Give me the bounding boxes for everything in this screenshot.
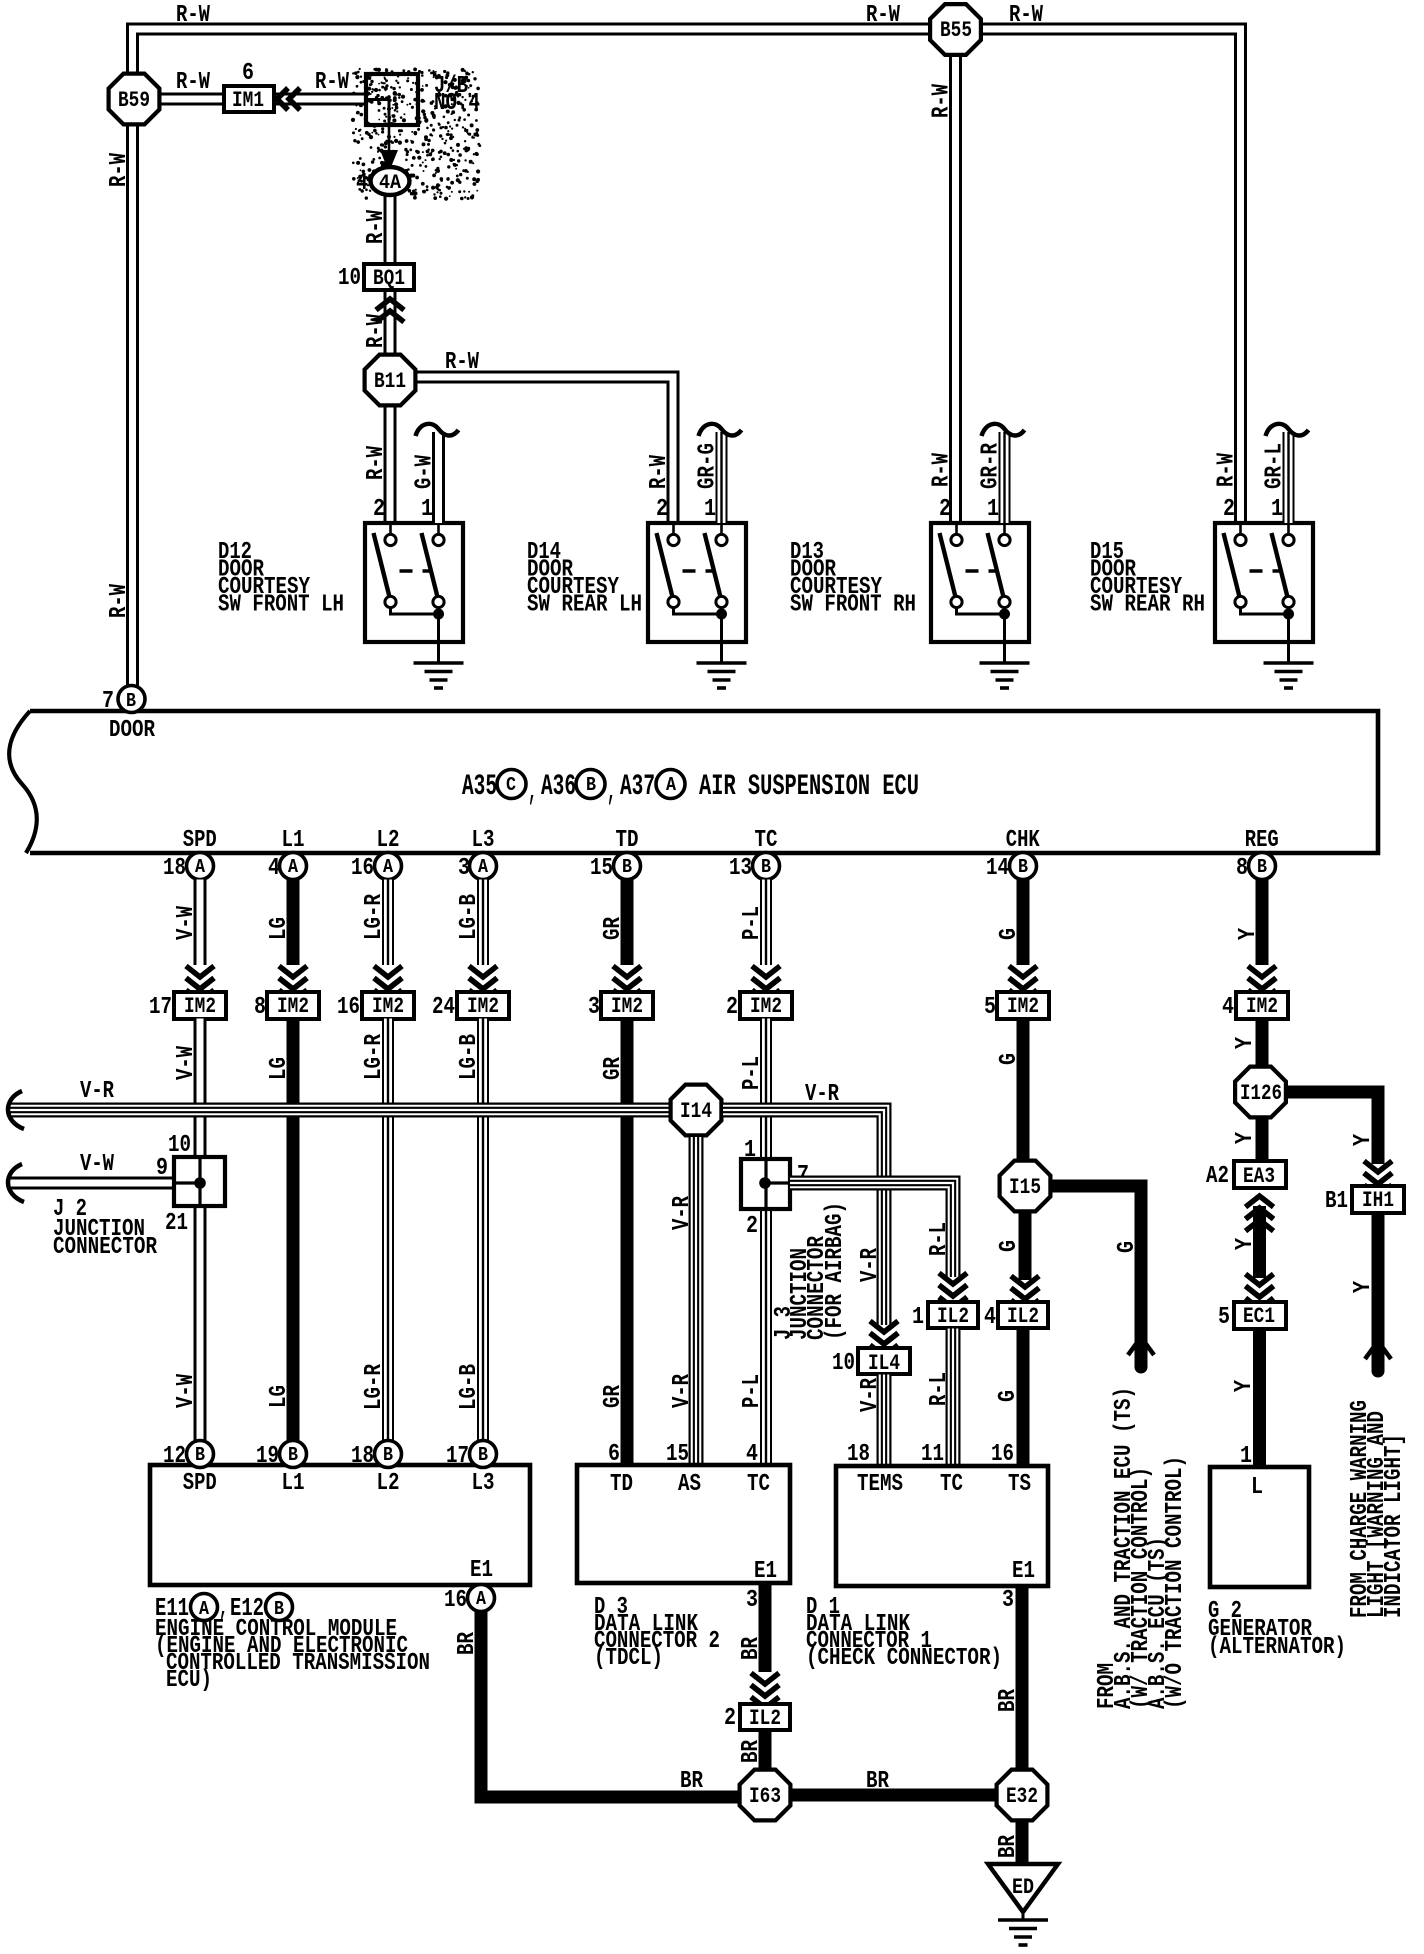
wire BR from ECM pin 16 down and right to I63 [481,1612,738,1798]
ground below D12 [414,661,464,665]
svg-text:R-W: R-W [1214,453,1241,487]
svg-text:B: B [288,1444,298,1466]
svg-text:2: 2 [726,994,738,1021]
svg-text:SW REAR RH: SW REAR RH [1090,592,1205,619]
svg-text:E1: E1 [470,1557,493,1584]
svg-text:21: 21 [165,1210,188,1237]
svg-text:4: 4 [746,1441,758,1468]
svg-text:(TDCL): (TDCL) [594,1645,663,1672]
air suspension ECU box outline with break squiggle [30,711,1378,853]
wire Y from I126 down to EA3 [1256,1119,1269,1161]
svg-text:E32: E32 [1006,1784,1038,1809]
wire R-W BQ1 to B11 [384,289,397,354]
wire Y from EC1 down to G2 pin 1 [1253,1329,1266,1468]
wire R-W from J/B 4A oval down to BQ1 [384,195,397,264]
svg-text:18: 18 [847,1441,870,1468]
svg-text:LG-B: LG-B [456,1034,483,1080]
svg-text:9: 9 [156,1155,168,1182]
junction connector J3 box (for airbag) [741,1159,790,1209]
svg-text:BQ1: BQ1 [373,266,405,291]
svg-text:TEMS: TEMS [857,1471,903,1498]
door courtesy switch D12 [365,523,463,642]
connector IL2 pin 1 [928,1302,978,1328]
wire V-W from IM2 17 down through J2 to ECM pin 12 [194,1019,207,1158]
svg-text:GR: GR [600,917,627,940]
data link connector 2 box D3 [577,1465,790,1583]
svg-text:B55: B55 [940,18,972,43]
svg-text:Y: Y [1350,1134,1377,1146]
arrows up toward EA3 and wire Y down to EC1 [1246,1196,1274,1207]
svg-text:R-W: R-W [363,446,390,480]
svg-text:GR-L: GR-L [1262,443,1289,489]
svg-text:17: 17 [446,1443,469,1470]
svg-text:Y: Y [1232,1037,1259,1049]
svg-text:V-W: V-W [173,1046,200,1080]
svg-text:R-W: R-W [176,2,210,29]
svg-text:Y: Y [1231,1380,1258,1392]
svg-text:1: 1 [421,496,433,523]
svg-text:L3: L3 [472,827,495,854]
svg-text:3: 3 [1002,1587,1014,1614]
svg-text:BR: BR [454,1632,481,1655]
svg-text:R-W: R-W [176,69,210,96]
wire G from ECU CHK down to IM2 [1017,880,1030,966]
connector I126 [1235,1067,1286,1118]
wire GR-R into D13 pin 1 with continuation hook [999,432,1011,523]
svg-text:I63: I63 [749,1784,781,1809]
connector IL4 pin 10 [858,1348,910,1374]
svg-text:G: G [996,1053,1023,1065]
svg-text:V-R: V-R [805,1081,839,1108]
svg-text:10: 10 [832,1350,855,1377]
svg-text:3: 3 [746,1587,758,1614]
svg-text:5: 5 [984,994,996,1021]
wire Y from IH1 down to arrow from charge warning light [1372,1213,1385,1341]
wire V-W from ECU SPD down to IM2 [194,880,207,966]
wire GR-G into D14 pin 1 with continuation hook [716,432,728,523]
wire Y from ECU REG down to IM2 [1256,880,1269,966]
svg-text:B11: B11 [374,369,406,394]
arrow chevrons left toward IM1 [277,88,288,110]
svg-text:IM2: IM2 [467,994,499,1019]
svg-text:B: B [761,856,771,878]
svg-text:V-R: V-R [857,1248,884,1282]
wire G from IM2 5 down to I15 [1017,1019,1030,1162]
wire Y from I126 right then down to IH1 [1287,1092,1378,1164]
svg-text:R-W: R-W [315,69,349,96]
wire LG from ECU L1 down to IM2 [287,880,300,966]
svg-text:,: , [528,775,537,809]
svg-text:G: G [996,928,1023,940]
svg-text:EA3: EA3 [1243,1164,1275,1189]
wire BR from I63 to E32 [792,1789,995,1802]
svg-text:V-R: V-R [857,1378,884,1412]
ground below D14 [697,661,747,665]
wire BR from IL2 down to I63 [759,1730,772,1769]
wire LG-B from IM2 24 down to ECM pin 17 [477,1019,489,1442]
door courtesy switch D14 [648,523,746,642]
svg-text:L: L [1251,1474,1263,1501]
wire Y from IM2 4 down to I126 [1256,1019,1269,1068]
svg-text:A2: A2 [1206,1163,1229,1190]
svg-text:Y: Y [1350,1281,1377,1293]
svg-text:IM2: IM2 [1246,994,1278,1019]
svg-text:I126: I126 [1240,1081,1282,1106]
svg-text:V-R: V-R [80,1078,114,1105]
svg-text:11: 11 [921,1441,944,1468]
wire R-W B55 down to D13 pin 2 [949,55,962,523]
svg-text:14: 14 [986,855,1009,882]
data link connector 1 box D1 [836,1466,1048,1586]
svg-text:4: 4 [268,855,280,882]
svg-text:A: A [288,856,299,878]
svg-text:I14: I14 [680,1099,712,1124]
svg-text:BR: BR [995,1835,1022,1858]
svg-text:5: 5 [1218,1304,1230,1331]
svg-text:LG-R: LG-R [361,894,388,940]
svg-text:8: 8 [254,994,266,1021]
connector BQ1 with pin 10 [364,264,414,290]
wire LG-B from ECU L3 down to IM2 [477,880,489,966]
wire G from I15 down to IL2 pin 4 [1019,1213,1032,1280]
svg-text:B59: B59 [118,88,150,113]
svg-text:C: C [506,774,516,796]
svg-text:B: B [1018,856,1028,878]
connector IM2 pin 16 [362,992,414,1019]
svg-text:EC1: EC1 [1243,1304,1275,1329]
svg-text:G: G [995,1390,1022,1402]
svg-text:R-W: R-W [106,584,133,618]
svg-text:I15: I15 [1009,1175,1041,1200]
svg-text:V-R: V-R [669,1196,696,1230]
svg-text:L1: L1 [282,827,305,854]
svg-text:2: 2 [724,1705,736,1732]
svg-text:B: B [195,1444,205,1466]
svg-text:6: 6 [242,60,254,87]
svg-text:BR: BR [995,1689,1022,1712]
svg-text:12: 12 [163,1443,186,1470]
svg-text:TC: TC [940,1471,963,1498]
svg-text:IL4: IL4 [868,1351,900,1376]
wire V-W from left margin to J2 pin 9 [10,1177,174,1190]
svg-text:TC: TC [755,827,778,854]
generator box G2 [1210,1467,1309,1587]
svg-text:TD: TD [610,1471,633,1498]
svg-text:17: 17 [149,994,172,1021]
svg-text:3: 3 [588,994,600,1021]
svg-text:CONNECTOR: CONNECTOR [53,1234,157,1261]
wire G from I15 right then down to arrow from ABS ECU [1052,1186,1141,1340]
wire LG-R from ECU L2 down to IM2 [382,880,394,966]
wire V-R from IL4 down to D1 pin 18 TEMS [877,1375,892,1467]
svg-text:LG: LG [266,1057,293,1080]
svg-text:GR: GR [600,1057,627,1080]
wire R-L from IL2 down to D1 pin 11 TC [946,1329,961,1467]
svg-text:R-L: R-L [926,1372,953,1406]
svg-text:IM2: IM2 [611,994,643,1019]
svg-text:Y: Y [1232,1238,1259,1250]
wire R-W B59 to IM1 to J/B No.4 [159,93,367,106]
svg-text:19: 19 [256,1443,279,1470]
svg-text:(ALTERNATOR): (ALTERNATOR) [1208,1634,1346,1661]
ground below D13 [980,661,1030,665]
svg-text:1: 1 [987,496,999,523]
wire R-L from J3 pin 7 right then down to IL2 pin 1 [790,1183,953,1277]
svg-text:10: 10 [338,265,361,292]
svg-text:R-W: R-W [646,455,673,489]
stipple shading around J/B No.4 junction block [351,68,481,201]
engine control module box E11/E12 [150,1465,530,1585]
connector B59 [109,74,160,125]
svg-text:ECU): ECU) [166,1667,212,1694]
svg-text:GR: GR [600,1385,627,1408]
connector B55 [930,4,981,55]
svg-text:2: 2 [1223,496,1235,523]
connector IM2 pin 8 [267,992,319,1019]
svg-text:1: 1 [1271,496,1283,523]
svg-text:B: B [622,856,632,878]
svg-text:REG: REG [1245,827,1279,854]
wire P-L from ECU TC down to IM2 [760,880,772,966]
svg-text:B: B [126,690,136,712]
svg-text:A37: A37 [620,770,655,804]
svg-text:A36: A36 [541,770,576,804]
svg-text:2: 2 [746,1213,758,1240]
svg-text:R-W: R-W [106,153,133,187]
connector IM2 pin 17 [174,992,226,1019]
ECM pin 19 L1 [280,1441,307,1468]
svg-text:4: 4 [984,1304,996,1331]
svg-text:R-W: R-W [929,453,956,487]
svg-text:15: 15 [666,1441,689,1468]
svg-text:A: A [478,856,489,878]
svg-text:BR: BR [738,1740,765,1763]
svg-text:Y: Y [1235,928,1262,940]
connector IM2 pin 24 [457,992,509,1019]
svg-text:IH1: IH1 [1362,1188,1394,1213]
svg-text:P-L: P-L [739,1056,766,1090]
connector EA3 pin A2 [1234,1161,1286,1188]
svg-text:LG: LG [266,1385,293,1408]
svg-text:6: 6 [608,1441,620,1468]
svg-text:BR: BR [680,1768,703,1795]
svg-text:1: 1 [704,496,716,523]
svg-text:INDICATOR LIGHT]: INDICATOR LIGHT] [1381,1434,1408,1618]
svg-text:V-W: V-W [80,1151,114,1178]
svg-text:E1: E1 [754,1558,777,1585]
svg-text:4A: 4A [379,172,401,195]
svg-text:G: G [1114,1241,1141,1253]
svg-text:4: 4 [356,170,368,197]
svg-text:AIR SUSPENSION ECU: AIR SUSPENSION ECU [699,770,919,804]
svg-text:P-L: P-L [739,906,766,940]
door courtesy switch D15 [1215,523,1313,642]
svg-text:L2: L2 [377,1470,400,1497]
svg-text:R-W: R-W [363,210,390,244]
wire R-W from B59 up across top to B55 [133,29,931,73]
svg-text:CHK: CHK [1006,827,1040,854]
svg-text:18: 18 [163,855,186,882]
svg-text:A: A [666,774,677,796]
svg-text:IL2: IL2 [749,1706,781,1731]
svg-text:B: B [383,1444,393,1466]
svg-text:G: G [996,1240,1023,1252]
arrow chevrons up into BQ1 [376,299,404,310]
svg-text:LG-B: LG-B [456,1364,483,1410]
junction block J/B No.4 [366,74,418,125]
ground symbol below ED [1022,1912,1025,1920]
connector IM2 pin 4 [1236,992,1288,1019]
svg-text:L1: L1 [282,1470,305,1497]
connector IL2 pin 4 [998,1302,1048,1328]
fuse 4A oval with pin 4 [371,167,410,195]
connector I63 [740,1770,791,1821]
svg-text:L3: L3 [472,1470,495,1497]
svg-text:R-L: R-L [926,1222,953,1256]
ECM pin 17 L3 [470,1441,497,1468]
svg-text:BR: BR [738,1637,765,1660]
connector IH1 pin B1 [1352,1186,1404,1213]
ECM pin 18 L2 [375,1441,402,1468]
svg-text:16: 16 [991,1441,1014,1468]
ECM pin 12 SPD [187,1441,214,1468]
svg-text:13: 13 [729,855,752,882]
svg-text:2: 2 [939,496,951,523]
door courtesy switch D13 [931,523,1029,642]
svg-text:8: 8 [1236,855,1248,882]
svg-text:IM2: IM2 [277,994,309,1019]
svg-text:LG: LG [266,917,293,940]
svg-text:GR-G: GR-G [695,443,722,489]
svg-text:16: 16 [444,1587,467,1614]
ground point ED triangle [988,1864,1058,1912]
ECU pin 7 circle B [118,686,145,713]
svg-text:SW FRONT RH: SW FRONT RH [790,592,916,619]
wire V-R from I14 right then down into IL4 [723,1110,884,1325]
connector I14 [671,1085,722,1136]
svg-text:A: A [476,1588,487,1610]
svg-text:LG-R: LG-R [361,1034,388,1080]
svg-text:(CHECK CONNECTOR): (CHECK CONNECTOR) [806,1645,1002,1672]
svg-text:TC: TC [747,1471,770,1498]
svg-text:DOOR: DOOR [109,717,155,744]
svg-text:IL2: IL2 [937,1304,969,1329]
svg-text:(W/O TRACTION CONTROL): (W/O TRACTION CONTROL) [1162,1456,1189,1709]
connector IM2 pin 5 [997,992,1049,1019]
wire G-W into D12 pin 1 with continuation hook [432,432,445,523]
svg-text:18: 18 [351,1443,374,1470]
svg-text:SPD: SPD [183,1470,217,1497]
svg-text:TS: TS [1008,1471,1031,1498]
svg-text:B: B [478,1444,488,1466]
svg-text:1: 1 [744,1137,756,1164]
svg-text:V-W: V-W [173,1374,200,1408]
svg-text:2: 2 [656,496,668,523]
connector E32 [997,1770,1048,1821]
svg-text:R-W: R-W [1009,2,1043,29]
svg-text:A: A [383,856,394,878]
junction connector J2 box [174,1157,225,1206]
svg-text:(FOR AIRBAG): (FOR AIRBAG) [822,1202,849,1340]
svg-text:B1: B1 [1325,1188,1348,1215]
wire R-W from B55 right to top-right corner down to D15 pin 2 [981,29,1241,523]
connector EC1 pin 5 [1234,1302,1286,1329]
wire GR from ECU TD down to IM2 [621,880,634,966]
svg-text:LG-R: LG-R [361,1364,388,1410]
svg-text:E1: E1 [1012,1558,1035,1585]
wire BR from D3 E1 down to IL2 pin 2 [759,1583,772,1672]
svg-text:7: 7 [102,688,114,715]
svg-text:Y: Y [1232,1132,1259,1144]
svg-text:4: 4 [1222,994,1234,1021]
wire GR-L into D15 pin 1 with continuation hook [1283,432,1295,523]
svg-text:BR: BR [866,1768,889,1795]
wire BR from D1 E1 down to E32 [1016,1586,1029,1768]
svg-text:ED: ED [1012,1875,1034,1900]
connector IM2 pin 3 [601,992,653,1019]
svg-text:16: 16 [337,994,360,1021]
wire G from IL2 down to D1 pin 16 TS [1017,1329,1030,1467]
svg-text:,: , [607,775,616,809]
svg-text:SW REAR LH: SW REAR LH [527,592,642,619]
svg-text:B: B [586,774,596,796]
svg-text:24: 24 [432,994,455,1021]
wire LG-R from IM2 16 down to ECM pin 18 [382,1019,394,1442]
svg-text:A35: A35 [462,770,497,804]
svg-text:IL2: IL2 [1007,1304,1039,1329]
arrow down from J/B to 4A [388,125,391,155]
svg-text:AS: AS [678,1471,701,1498]
svg-text:B: B [1257,856,1267,878]
svg-text:V-R: V-R [669,1374,696,1408]
svg-text:NO.4: NO.4 [434,90,480,117]
wire R-W B11 right to D14 pin 2 [416,377,673,523]
svg-text:LG-B: LG-B [456,894,483,940]
connector IM2 pin 2 [740,992,792,1019]
connector I15 [1000,1161,1051,1212]
connector B11 [365,355,416,406]
svg-text:R-W: R-W [929,84,956,118]
wire P-L from IM2 2 down through J3 to D3 pin 4 TC [760,1019,772,1160]
svg-text:2: 2 [373,496,385,523]
svg-text:R-W: R-W [866,2,900,29]
svg-text:3: 3 [458,855,470,882]
svg-text:R-W: R-W [445,349,479,376]
svg-text:GR-R: GR-R [978,443,1005,489]
svg-text:TD: TD [616,827,639,854]
wire V-R from I14 down to D3 pin 15 AS [689,1137,704,1465]
svg-text:IM2: IM2 [1007,994,1039,1019]
svg-text:P-L: P-L [739,1374,766,1408]
svg-text:16: 16 [351,855,374,882]
svg-text:L2: L2 [377,827,400,854]
connector IM1 with pin 6 [224,86,274,112]
wire LG from IM2 8 down to ECM pin 19 [287,1019,300,1442]
svg-text:A: A [195,856,206,878]
svg-text:SW FRONT LH: SW FRONT LH [218,592,344,619]
ground below D15 [1264,661,1314,665]
svg-text:V-W: V-W [173,906,200,940]
svg-text:1: 1 [912,1304,924,1331]
svg-text:IM2: IM2 [184,994,216,1019]
wire R-W B59 down to DOOR ECU pin 7 [126,125,139,686]
wire GR from IM2 3 down to D3 pin 6 TD [621,1019,634,1466]
wire R-W B11 down to D12 pin 2 [384,406,397,523]
svg-text:G-W: G-W [412,455,439,489]
svg-text:10: 10 [168,1132,191,1159]
wire V-R from left margin to I14 [10,1103,669,1118]
svg-text:SPD: SPD [183,827,217,854]
